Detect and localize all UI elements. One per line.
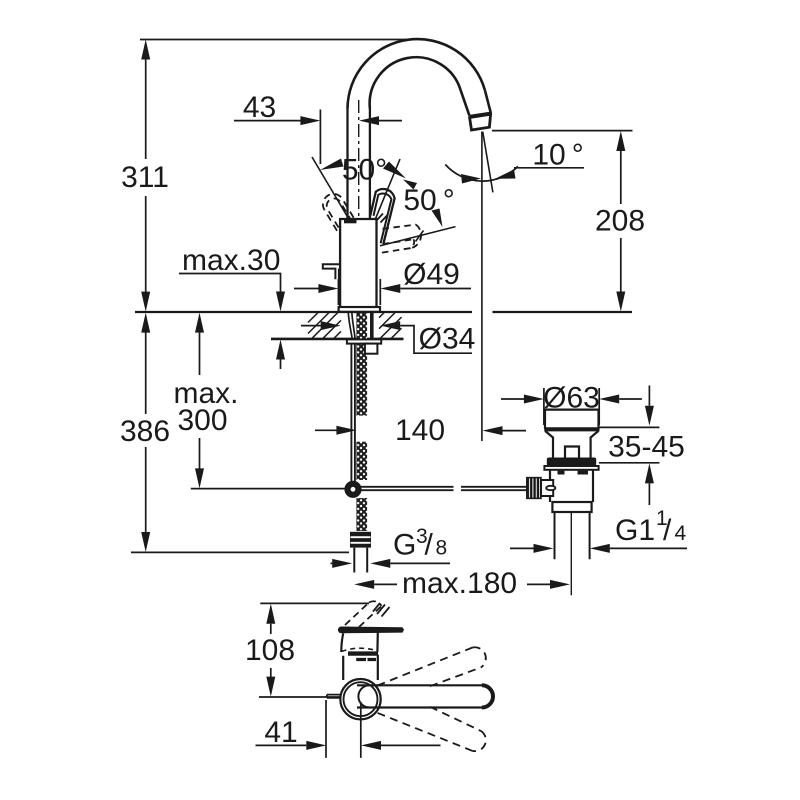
svg-text:G1: G1 — [615, 514, 655, 547]
paddle bar dark — [338, 627, 404, 634]
dim 35-45 — [598, 386, 660, 506]
pin — [546, 486, 555, 490]
dim 311 top arrow — [141, 40, 150, 60]
tick line C — [416, 231, 424, 242]
countertop top line — [135, 311, 632, 313]
countertop bottom line — [271, 338, 404, 341]
spout riser — [348, 109, 370, 220]
dashed spout plan — [345, 601, 382, 627]
popup rod horizontal — [360, 487, 527, 490]
drain taper — [545, 431, 598, 458]
spout arc inner — [370, 57, 461, 108]
dim 108 — [270, 624, 272, 677]
dim max300 top arrow — [195, 313, 204, 333]
line C right dashed handle extension — [380, 227, 456, 246]
drain body — [550, 470, 593, 502]
dim 41 — [256, 744, 441, 746]
stub plan — [327, 695, 341, 698]
wire 386 bottom extension — [131, 551, 349, 553]
tailpipe centerline — [570, 512, 572, 595]
capsule neck arc — [358, 685, 369, 707]
wire max300 bottom extension — [191, 488, 345, 490]
svg-text:208: 208 — [595, 205, 645, 238]
dim 208 line — [620, 135, 622, 306]
line B solid handle axis extension — [373, 159, 401, 226]
dim max180 — [374, 583, 550, 585]
rod curve in hole — [348, 313, 355, 341]
dim 386 line — [145, 317, 147, 547]
wire outlet vertical extension — [481, 132, 483, 442]
svg-text:max.30: max.30 — [182, 244, 280, 277]
pivot circles — [340, 679, 380, 719]
stud dark — [370, 313, 374, 339]
svg-text:4: 4 — [675, 522, 687, 545]
base flange — [339, 307, 380, 312]
nozzle cap — [470, 114, 491, 130]
lever body plan — [341, 633, 378, 652]
washer — [347, 339, 381, 343]
drain knob — [565, 447, 579, 459]
handle slashes — [377, 214, 388, 223]
svg-text:140: 140 — [395, 414, 445, 447]
solid lever capsule — [357, 685, 493, 707]
svg-text:50 °: 50 ° — [403, 184, 454, 217]
svg-text:50°: 50° — [342, 154, 387, 187]
drain flange thick — [544, 427, 599, 431]
dim dia34 — [301, 325, 321, 327]
dim max300 line — [199, 317, 201, 483]
dim 386 bottom arrow — [141, 532, 150, 552]
svg-text:311: 311 — [121, 161, 169, 194]
wire top extension line — [140, 39, 412, 41]
dim dia63 extensions — [544, 388, 599, 425]
leader 10deg — [514, 167, 584, 169]
leader max30 — [179, 274, 281, 293]
arrow 10deg right — [495, 170, 516, 179]
braid hose — [356, 313, 367, 416]
svg-text:max.180: max.180 — [402, 567, 517, 600]
lever base thick bar — [348, 651, 378, 655]
wire 108 bottom extension — [259, 696, 341, 698]
drain slots — [558, 471, 565, 475]
wire outlet slanted 10deg — [483, 132, 493, 193]
dashed handle right — [382, 225, 416, 253]
dashed lever upper — [378, 648, 481, 687]
nozzle separator — [469, 113, 490, 116]
arc 10deg — [445, 165, 518, 182]
dim 41 extensions — [326, 700, 361, 758]
drain cup — [545, 410, 599, 429]
dashed handle left — [319, 190, 361, 241]
drain tailpipe — [555, 512, 590, 559]
spout plan hatches — [373, 603, 390, 617]
svg-text:386: 386 — [120, 415, 170, 448]
G38 nut — [350, 532, 371, 548]
arrow 50deg1 left — [320, 159, 344, 171]
hatching left — [308, 312, 341, 338]
column dark dashes — [356, 658, 376, 661]
svg-text:Ø34: Ø34 — [419, 323, 476, 356]
dim 311 line — [145, 44, 147, 306]
body top dark mark — [344, 220, 357, 223]
dim max30 up arrow — [276, 340, 285, 360]
spout arc outer — [348, 39, 485, 108]
hook lever — [323, 264, 341, 279]
arrow 50deg1 right — [383, 162, 406, 179]
svg-text:300: 300 — [177, 404, 227, 437]
svg-text:/: / — [663, 514, 672, 547]
body column plan — [343, 655, 378, 680]
dim 43 — [234, 110, 402, 165]
svg-text:43: 43 — [243, 91, 276, 124]
dim max300 bottom arrow — [195, 468, 204, 488]
arrow 50deg2 upper — [403, 180, 417, 190]
svg-text:8: 8 — [436, 537, 448, 560]
wire 108 top extension — [260, 602, 369, 604]
dim G38 — [331, 562, 451, 564]
svg-text:10 °: 10 ° — [532, 139, 583, 172]
wire 208 top extension — [492, 130, 633, 132]
body — [340, 219, 376, 307]
G38 tube — [354, 548, 367, 573]
dim dia63 — [501, 398, 642, 400]
drain plate — [544, 466, 598, 470]
svg-text:35-45: 35-45 — [608, 430, 685, 463]
handle solid lever — [370, 189, 394, 244]
dim dia49 — [294, 279, 471, 305]
dashed lever lower — [378, 707, 481, 751]
leader dia34 — [400, 326, 472, 354]
dim 140 — [315, 429, 526, 431]
popup rod vertical — [351, 344, 355, 482]
centerline faucet — [358, 100, 360, 306]
mounting nut — [365, 344, 378, 354]
capsule right cap thick — [482, 685, 493, 707]
dim G114 — [510, 547, 687, 549]
svg-text:41: 41 — [264, 716, 297, 749]
line A left 50deg extension — [312, 157, 350, 221]
arrow 10deg left — [461, 174, 481, 184]
knurled nut — [527, 478, 541, 499]
drain seal dark — [547, 458, 596, 467]
svg-text:108: 108 — [245, 634, 295, 667]
arrow 50deg2 lower — [432, 209, 443, 228]
dim 311 bottom arrow — [141, 292, 150, 312]
nozzle sides — [461, 90, 491, 115]
dim max30 down arrow — [276, 292, 285, 312]
svg-text:/: / — [425, 529, 434, 562]
drain collar — [552, 502, 591, 512]
dim 386 top arrow — [141, 313, 150, 333]
svg-text:G: G — [393, 529, 416, 562]
clevis — [541, 480, 553, 496]
lever body dashed arc — [342, 648, 377, 651]
svg-text:Ø49: Ø49 — [403, 258, 460, 291]
node ball joint — [348, 484, 359, 495]
hatching right — [379, 312, 402, 338]
